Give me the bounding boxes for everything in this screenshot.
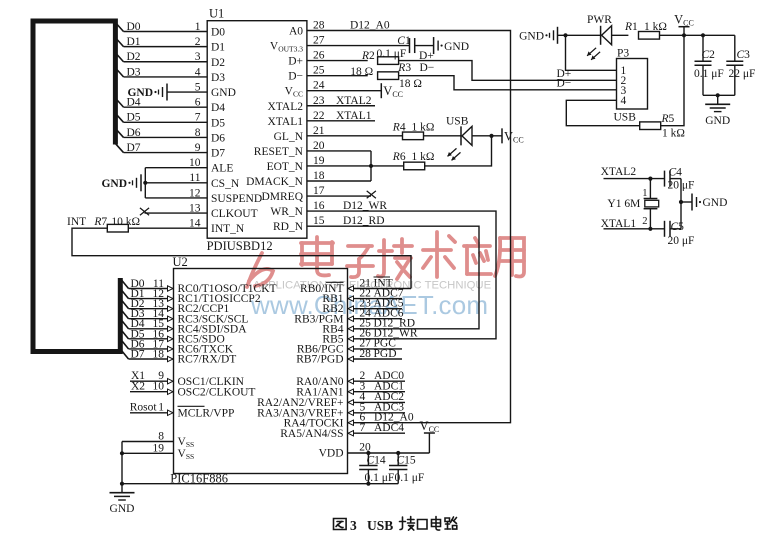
svg-text:U1: U1 [209,7,224,21]
wire net ADC0 stub at U2 pin 2 [348,370,406,384]
wire net XTAL1 stub at U1 pin 22 [307,110,375,122]
svg-text:XTAL1: XTAL1 [336,110,372,122]
svg-text:Rosot: Rosot [130,402,158,414]
svg-text:20: 20 [313,140,325,152]
capacitor C14 0.1 uF [359,453,394,484]
svg-text:XTAL2: XTAL2 [268,101,304,113]
svg-text:D−: D− [288,71,303,83]
svg-text:RB7/PGD: RB7/PGD [296,354,343,366]
capacitor C1 0.1 uF [377,35,415,60]
resistor R3 18 Ohm [378,62,422,90]
wire D1 bus tap to U1 pin 2 [115,36,207,48]
svg-text:9: 9 [195,142,201,154]
svg-text:Y1 6M: Y1 6M [607,198,640,210]
svg-text:INT_N: INT_N [211,223,245,235]
svg-text:CS_N: CS_N [211,178,240,190]
svg-text:D1: D1 [211,42,225,54]
svg-text:1: 1 [158,402,164,414]
wire P3 pin 1 to PWR node [566,35,617,70]
svg-text:18: 18 [313,170,325,182]
svg-text:14: 14 [189,218,201,230]
svg-text:8: 8 [195,127,201,139]
svg-text:XTAL2: XTAL2 [336,95,372,107]
svg-text:GND: GND [211,87,236,99]
wire net ADC1 stub at U2 pin 3 [348,381,406,395]
svg-text:1 kΩ: 1 kΩ [412,151,435,163]
svg-text:D12_WR: D12_WR [343,200,387,212]
wire crystal ground bus [680,179,682,229]
svg-text:D7: D7 [211,148,225,160]
node junction C2 tap [701,33,705,37]
svg-text:C1: C1 [397,35,411,47]
svg-text:USB: USB [614,112,637,124]
resistor R4 1 kOhm [392,122,435,140]
ground at U1 pins 10-12 [101,174,141,191]
wire net D12_WR from U1 pin 16 to U2 pin 26 [307,200,496,339]
svg-text:2: 2 [642,216,647,227]
node junction filter ground [716,93,720,97]
wire net XTAL1 to C5 [601,218,665,230]
svg-text:15: 15 [313,215,325,227]
node junction Vcc rail [682,33,686,37]
wire net X1 stub to U2 pin 9 [130,370,174,384]
no-connect X at CLKOUT [140,208,149,215]
wire net ADC3 stub at U2 pin 5 [348,402,406,416]
svg-text:7: 7 [360,422,366,434]
svg-text:24: 24 [313,80,325,92]
svg-text:R1: R1 [624,21,638,33]
svg-text:RC7/RX/DT: RC7/RX/DT [178,354,237,366]
wire C2/C3 bottoms [703,94,735,96]
svg-text:GND: GND [127,87,153,99]
wire net D12_RD at U2 pin 25 [348,318,415,332]
ground at crystal [692,194,727,211]
wire D4 bus tap to U2 pin 15 [120,318,173,331]
wire C4 to ground bus [670,178,681,180]
wire INT net from U1 pin 14 [128,218,207,230]
svg-text:19: 19 [313,155,325,167]
svg-text:D7: D7 [127,142,141,154]
svg-text:19: 19 [153,442,165,454]
wire net INT at U2 pin 21 [348,277,412,291]
wire net D12_WR at U2 pin 26 [348,328,418,342]
svg-text:3: 3 [195,51,201,63]
svg-text:GND: GND [519,31,544,43]
node junction Vss [120,451,124,455]
wire Vcc node to C2/C3 [684,34,735,36]
wire net Rosot stub to U2 pin 1 MCLR [130,402,174,416]
wire net X2 stub to U2 pin 10 [130,381,174,395]
svg-text:D3: D3 [127,66,141,78]
power Vcc at USB LED [502,128,524,144]
svg-text:22 μF: 22 μF [729,68,756,80]
svg-text:PDIUSBD12: PDIUSBD12 [207,239,273,253]
ground at U2 [110,484,135,516]
wire D2 bus tap to U1 pin 3 [115,51,207,63]
svg-text:10 kΩ: 10 kΩ [111,216,140,228]
node junction XTAL1/Y1 [648,227,652,231]
node junction P3 pin1 tap [563,33,567,37]
wire D7 bus tap to U1 pin 9 [115,142,207,154]
power Vcc at U1 pin 24 [381,83,403,99]
svg-text:C15: C15 [397,454,416,466]
svg-text:D2: D2 [211,57,225,69]
node junction C14 ground [366,482,370,486]
wire D3 bus tap to U1 pin 4 [115,66,207,78]
wire R5 to Vcc rail [661,35,684,125]
wire U2 VDD pin 20 to Vcc [348,433,430,454]
wire net D&#8722; from R3 to USB connector P3 pin 3 [399,62,617,90]
connector P3 USB [614,48,648,124]
svg-text:D−: D− [557,78,572,90]
svg-text:DMACK_N: DMACK_N [246,176,304,188]
wire LED to R1 [612,34,629,36]
wire net XTAL2 to C4 [601,166,665,178]
wire U1 pin 13 CLKOUT (n.c.) [145,202,208,214]
svg-text:P3: P3 [617,48,629,60]
svg-text:D3: D3 [211,72,225,84]
wire U1 pin 27 to C1 [307,35,410,47]
svg-text:D7: D7 [131,348,145,360]
wire net ADC6 stub at U2 pin 24 [348,308,404,322]
svg-text:13: 13 [189,202,201,214]
svg-text:28: 28 [359,348,371,360]
svg-text:GND: GND [705,115,730,127]
svg-text:WR_N: WR_N [270,206,303,218]
svg-text:GND: GND [101,178,127,190]
wire R4 to LED [424,135,462,137]
wire net ADC2 stub at U2 pin 4 [348,391,406,405]
svg-text:EOT_N: EOT_N [267,161,304,173]
wire net ADC4 stub at U2 pin 7 [348,422,406,436]
svg-text:VDD: VDD [319,448,344,460]
wire net PGC stub at U2 pin 27 [348,338,403,352]
svg-text:5: 5 [195,81,201,93]
svg-text:GL_N: GL_N [274,131,304,143]
wire D0 bus tap to U2 pin 11 [120,278,173,291]
svg-text:1 kΩ: 1 kΩ [412,122,435,134]
svg-text:0.1 μF: 0.1 μF [694,68,724,80]
svg-text:USB: USB [446,115,469,127]
svg-text:D6: D6 [127,127,141,139]
svg-text:GND: GND [444,41,469,53]
svg-text:R4: R4 [392,122,406,134]
svg-text:16: 16 [313,200,325,212]
svg-text:3: 3 [350,518,357,533]
resistor R5 1 kOhm [640,113,685,140]
svg-text:12: 12 [189,187,201,199]
power Vcc rail top [674,13,694,36]
wire R6 to Vcc node [425,136,492,166]
node junction ground rail corner [120,482,124,486]
wire R1 to Vcc node [660,34,685,36]
wire P3 pin 4 to R5 [566,100,639,125]
svg-text:1 kΩ: 1 kΩ [644,21,667,33]
resistor R6 1 kOhm [371,151,434,170]
wire D3 bus tap to U2 pin 14 [120,308,173,321]
svg-text:PWR: PWR [587,14,612,26]
wire D6 bus tap to U1 pin 8 [115,127,207,139]
IC U1 PDIUSBD12 [207,7,307,253]
wire U1 pin 25 D&#8722; to R3 [307,65,368,77]
svg-text:20 μF: 20 μF [668,235,695,247]
svg-text:2: 2 [195,36,201,48]
svg-text:SUSPEND: SUSPEND [211,193,262,205]
caption: figure 3 USB interface circuit [334,519,347,530]
svg-text:C4: C4 [669,166,683,178]
ground at PWR LED [519,27,557,44]
svg-text:MCLR/VPP: MCLR/VPP [178,407,235,419]
wire C5 to ground bus [670,228,681,230]
wire net PGD stub at U2 pin 28 [348,348,403,362]
svg-text:D5: D5 [127,112,141,124]
resistor R2 18 Ohm [350,50,398,78]
svg-text:DMREQ: DMREQ [261,191,303,203]
LED USB indicator [446,115,472,160]
wire U1 pins 10-12 common [145,157,207,199]
svg-text:A0: A0 [289,26,303,38]
wire PWR ground to LED [558,34,601,36]
svg-text:D+: D+ [419,50,434,62]
LED PWR indicator [587,14,612,60]
capacitor C3 22 uF [726,35,755,95]
wire D4 bus tap to U1 pin 6 [115,97,207,109]
ground at C1 [434,37,469,54]
wire net D12_A0 label at U2 pin 6 [348,412,414,426]
svg-text:D0: D0 [127,21,141,33]
svg-text:D1: D1 [127,36,141,48]
svg-text:22: 22 [313,110,325,122]
svg-text:8: 8 [158,431,164,443]
wire decoupling ground rail [122,483,398,485]
svg-text:GND: GND [110,503,135,515]
wire LED to Vcc node [472,135,502,137]
svg-text:RD_N: RD_N [273,221,304,233]
wire D1 bus tap to U2 pin 12 [120,288,173,301]
svg-text:C5: C5 [671,221,685,233]
svg-text:0.1 μF: 0.1 μF [395,472,425,484]
capacitor C5 20 uF [665,221,695,247]
resistor R1 1 kOhm [624,21,667,39]
node junction crystal ground [679,200,683,204]
capacitor C15 0.1 uF [389,453,424,484]
svg-text:R2: R2 [361,50,375,62]
wire D0 bus tap to U1 pin 1 [115,21,207,33]
svg-text:U2: U2 [173,255,188,269]
svg-text:USB: USB [367,518,393,533]
svg-text:ALE: ALE [211,163,233,175]
wire D5 bus tap to U1 pin 7 [115,112,207,124]
svg-text:C14: C14 [367,454,386,466]
svg-text:PGD: PGD [374,348,397,360]
wire U1 pin 24 to Vcc [307,80,381,92]
svg-text:17: 17 [313,185,325,197]
svg-text:D6: D6 [211,132,225,144]
svg-text:R5: R5 [661,113,675,125]
capacitor C2 0.1 uF [694,35,724,95]
svg-text:4: 4 [621,95,627,107]
wire U1 pins 20/19/18 common bracket [307,140,371,182]
power Vcc at U2 VDD [420,419,440,434]
no-connect X at DMREQ [367,191,376,198]
svg-text:25: 25 [313,65,325,77]
wire to crystal ground symbol [681,201,692,203]
svg-text:28: 28 [313,20,325,32]
wire net D+ from R2 to USB connector P3 pin 2 [399,50,617,80]
svg-text:C2: C2 [702,49,716,61]
svg-text:11: 11 [189,172,200,184]
svg-text:GND: GND [703,197,728,209]
svg-text:18: 18 [153,348,165,360]
node junction C15 tap [396,451,400,455]
node junction C14 tap [366,451,370,455]
svg-text:XTAL2: XTAL2 [601,166,637,178]
svg-text:27: 27 [313,35,325,47]
wire U1 pin 17 DMREQ (n.c.) [307,185,371,197]
svg-text:INT: INT [67,216,86,228]
svg-text:1: 1 [642,188,647,199]
wire data bus D[0..7] (thick bus) [33,19,120,352]
wire U1 pin 26 D+ to R2 [307,50,368,62]
svg-text:RESET_N: RESET_N [254,146,304,158]
svg-text:0.1 μF: 0.1 μF [377,48,407,60]
svg-text:D12_A0: D12_A0 [350,20,390,32]
svg-text:6: 6 [195,97,201,109]
svg-text:7: 7 [195,112,201,124]
svg-text:21: 21 [313,125,325,137]
wire INT to U2 RB0 [72,228,411,288]
svg-text:26: 26 [313,50,325,62]
wire D2 bus tap to U2 pin 13 [120,298,173,311]
node junction ALE/CS_N/SUSPEND [143,181,147,185]
svg-text:18 Ω: 18 Ω [399,78,422,90]
svg-text:D12_RD: D12_RD [343,215,385,227]
resistor R7 10 kOhm [67,216,140,232]
ground at C2/C3 [705,95,730,127]
wire net XTAL2 stub at U1 pin 23 [307,95,375,107]
ground at U1 pin 5 [127,84,167,101]
svg-text:R7: R7 [93,216,107,228]
svg-text:10: 10 [153,381,165,393]
svg-text:R6: R6 [392,151,406,163]
wire C1 to ground [415,45,434,47]
wire net D12_RD from U1 pin 15 to U2 pin 25 [307,215,479,329]
capacitor C4 20 uF [665,166,695,191]
svg-text:CLKOUT: CLKOUT [211,208,258,220]
svg-text:C3: C3 [737,49,751,61]
svg-text:D5: D5 [211,117,225,129]
svg-text:D+: D+ [288,56,303,68]
svg-text:ADC4: ADC4 [374,422,404,434]
svg-text:RA5/AN4/SS: RA5/AN4/SS [280,428,343,440]
wire D6 bus tap to U2 pin 17 [120,338,173,351]
crystal Y1 6M [607,179,658,229]
wire U2 Vss pins to ground rail [122,431,174,484]
node junction LED/R6/Vcc [489,134,493,138]
svg-text:1 kΩ: 1 kΩ [662,128,685,140]
svg-text:XTAL1: XTAL1 [268,116,304,128]
wire net ADC7 stub at U2 pin 22 [348,287,404,301]
svg-text:X2: X2 [131,381,145,393]
wire net ADC5 stub at U2 pin 23 [348,297,404,311]
svg-text:D−: D− [420,62,435,74]
wire D7 bus tap to U2 pin 18 [120,348,173,361]
svg-text:10: 10 [189,157,201,169]
wire U1 pin 21 GL_N to R4 [307,125,403,137]
wire D5 bus tap to U2 pin 16 [120,328,173,341]
svg-text:D4: D4 [211,102,225,114]
svg-text:4: 4 [195,66,201,78]
svg-text:D2: D2 [127,51,141,63]
svg-text:1: 1 [195,21,201,33]
node junction XTAL2/Y1 [648,177,652,181]
svg-text:OSC2/CLKOUT: OSC2/CLKOUT [178,386,256,398]
node pin 5 GND wire [167,81,207,93]
svg-text:D0: D0 [211,27,225,39]
svg-text:R3: R3 [397,62,411,74]
wire net D12_A0 from U1 pin 28 to U2 pin 6 [307,20,511,423]
svg-text:23: 23 [313,95,325,107]
IC U2 PIC16F886 [170,255,347,486]
node junction EOT_N [369,164,373,168]
